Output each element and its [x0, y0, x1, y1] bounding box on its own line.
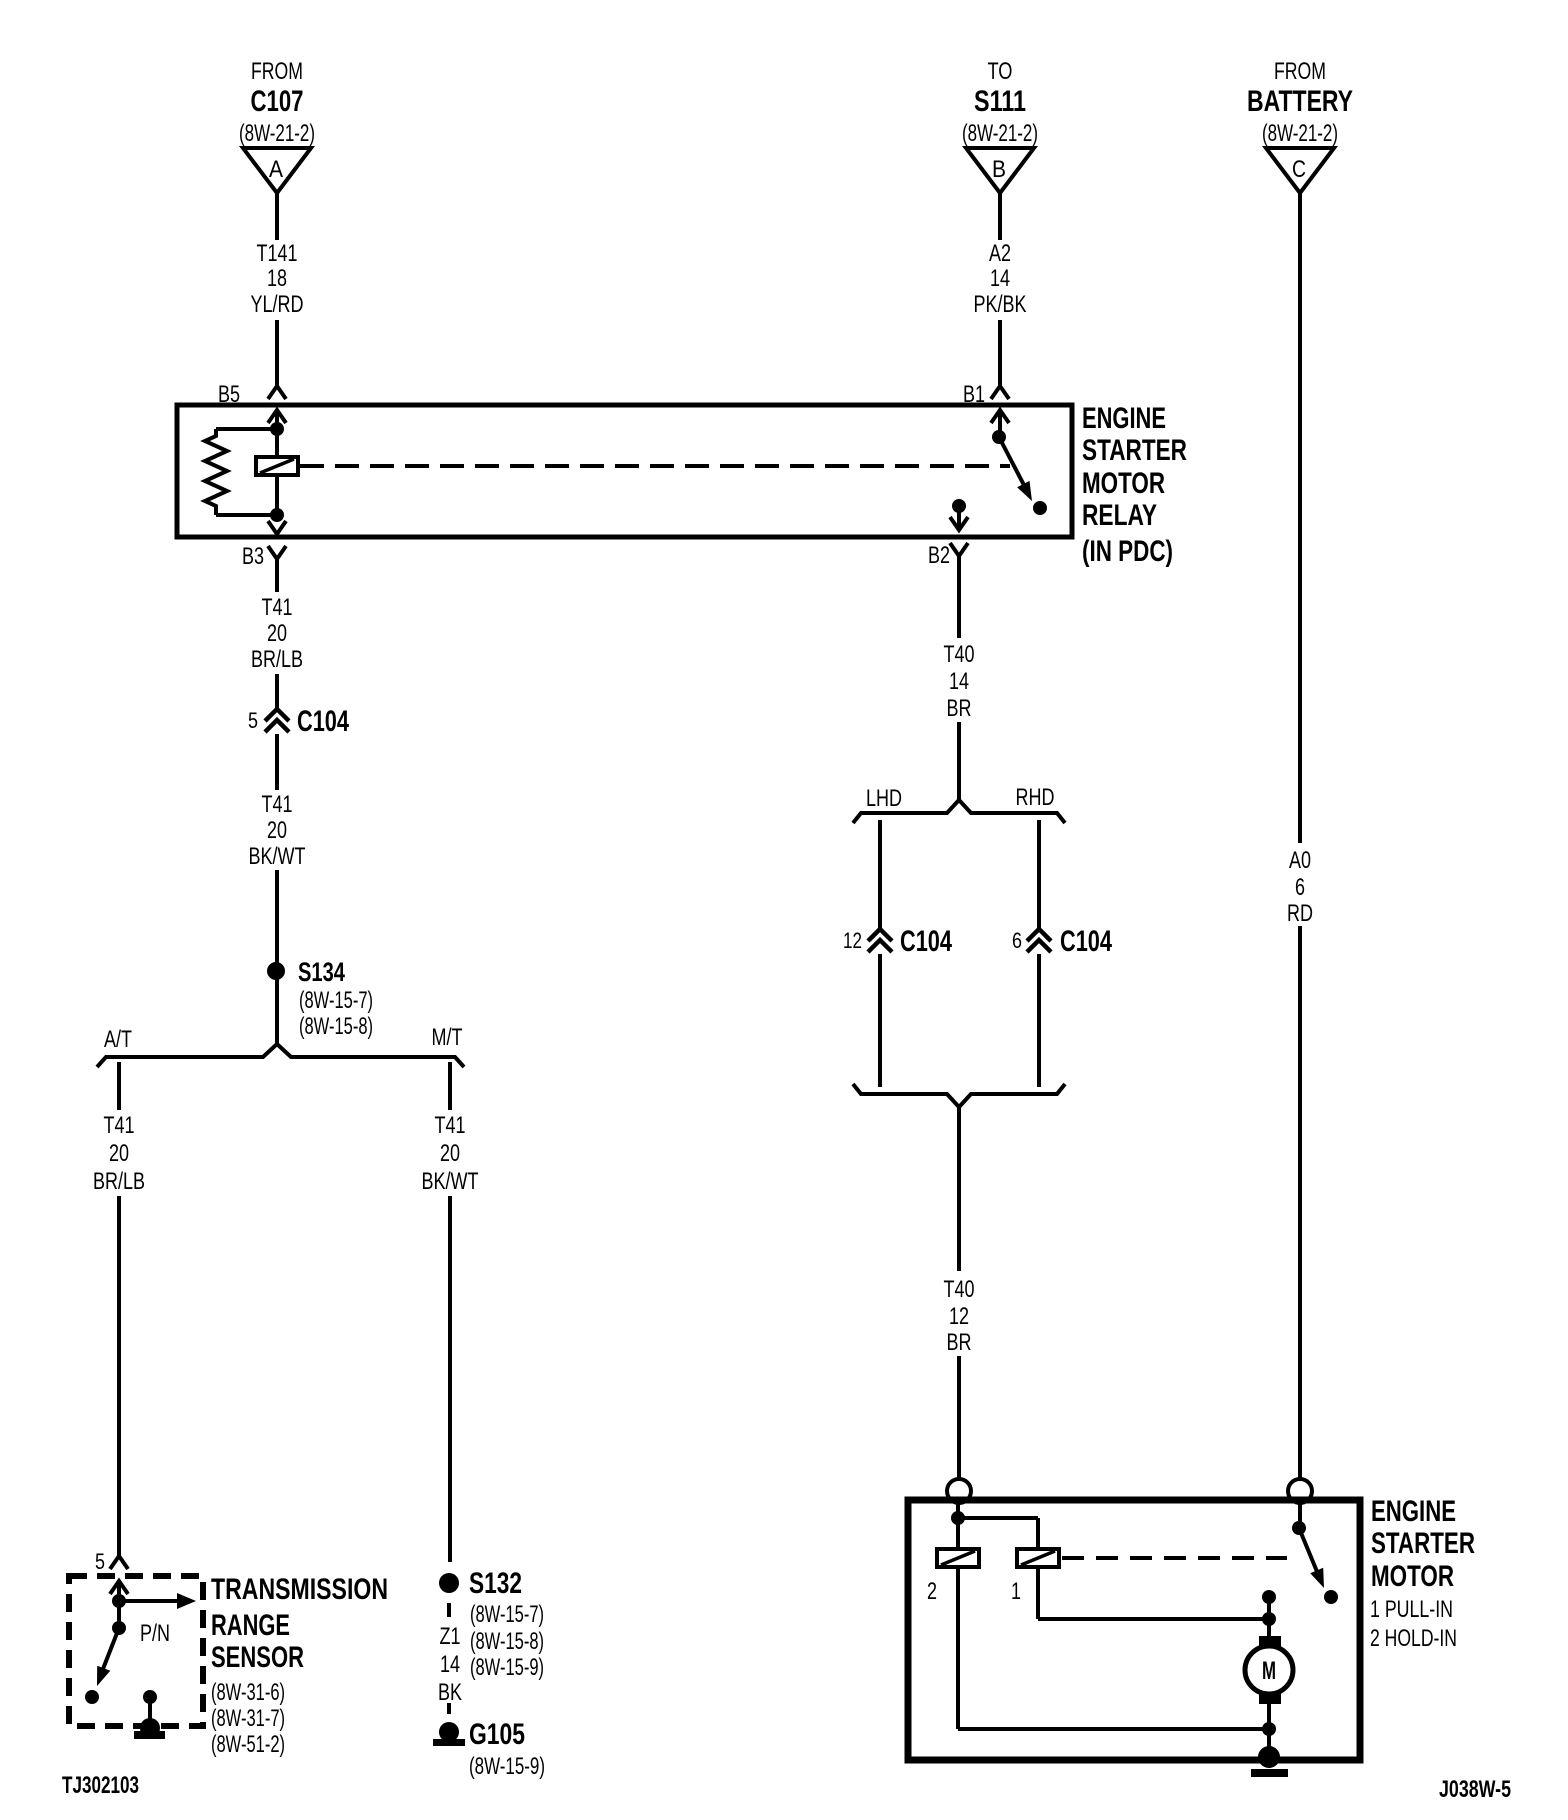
svg-text:6: 6	[1295, 874, 1305, 901]
svg-text:BR: BR	[947, 695, 972, 722]
svg-text:M: M	[1262, 1657, 1276, 1685]
svg-text:BR: BR	[947, 1329, 972, 1356]
svg-text:1 PULL-IN: 1 PULL-IN	[1370, 1596, 1453, 1623]
svg-text:ENGINE: ENGINE	[1371, 1495, 1456, 1528]
svg-text:C: C	[1292, 156, 1306, 183]
svg-text:C107: C107	[251, 85, 304, 118]
svg-text:ENGINE: ENGINE	[1082, 402, 1166, 435]
svg-text:S111: S111	[974, 85, 1026, 118]
svg-text:B: B	[992, 156, 1006, 183]
svg-text:J038W-5: J038W-5	[1439, 1776, 1511, 1803]
svg-text:A0: A0	[1289, 847, 1311, 874]
svg-text:BK/WT: BK/WT	[249, 843, 306, 870]
svg-text:14: 14	[440, 1651, 460, 1678]
svg-text:B2: B2	[928, 542, 950, 569]
svg-text:(8W-15-8): (8W-15-8)	[470, 1628, 544, 1655]
svg-text:M/T: M/T	[432, 1024, 463, 1051]
svg-text:(8W-31-6): (8W-31-6)	[211, 1679, 285, 1706]
svg-text:T40: T40	[944, 1276, 975, 1303]
svg-text:1: 1	[1011, 1578, 1021, 1605]
svg-text:T41: T41	[262, 594, 293, 621]
svg-text:(8W-21-2): (8W-21-2)	[1262, 120, 1338, 147]
svg-text:S132: S132	[469, 1567, 522, 1600]
svg-text:12: 12	[949, 1303, 969, 1330]
svg-text:(8W-21-2): (8W-21-2)	[239, 120, 315, 147]
svg-text:(8W-15-7): (8W-15-7)	[470, 1601, 544, 1628]
svg-text:S134: S134	[298, 957, 345, 987]
svg-text:A2: A2	[989, 240, 1011, 267]
svg-text:RHD: RHD	[1016, 784, 1055, 811]
svg-text:Z1: Z1	[440, 1623, 461, 1650]
svg-text:TRANSMISSION: TRANSMISSION	[211, 1573, 388, 1606]
svg-text:RANGE: RANGE	[211, 1609, 290, 1642]
svg-text:(8W-15-9): (8W-15-9)	[469, 1753, 545, 1780]
svg-text:T41: T41	[104, 1112, 135, 1139]
svg-text:B3: B3	[242, 543, 264, 570]
svg-text:(8W-15-9): (8W-15-9)	[470, 1654, 544, 1681]
svg-text:BR/LB: BR/LB	[251, 646, 303, 673]
svg-text:20: 20	[267, 620, 287, 647]
svg-text:(8W-51-2): (8W-51-2)	[211, 1731, 285, 1758]
svg-text:FROM: FROM	[1274, 58, 1326, 85]
svg-text:G105: G105	[469, 1718, 525, 1751]
svg-text:C104: C104	[297, 705, 349, 738]
svg-text:C104: C104	[900, 925, 952, 958]
svg-text:RELAY: RELAY	[1082, 499, 1157, 532]
svg-text:14: 14	[990, 265, 1010, 292]
svg-text:6: 6	[1012, 928, 1022, 953]
svg-text:STARTER: STARTER	[1371, 1527, 1475, 1560]
svg-text:(8W-21-2): (8W-21-2)	[962, 120, 1038, 147]
svg-text:14: 14	[949, 668, 969, 695]
svg-text:BK/WT: BK/WT	[422, 1168, 479, 1195]
svg-text:STARTER: STARTER	[1082, 434, 1187, 467]
svg-text:TJ302103: TJ302103	[62, 1772, 139, 1799]
svg-text:BATTERY: BATTERY	[1247, 85, 1353, 118]
svg-text:A: A	[269, 156, 283, 183]
svg-text:BR/LB: BR/LB	[93, 1168, 145, 1195]
svg-text:SENSOR: SENSOR	[211, 1641, 304, 1674]
svg-text:5: 5	[248, 708, 258, 733]
svg-text:2: 2	[927, 1578, 937, 1605]
svg-text:LHD: LHD	[866, 785, 902, 812]
svg-text:20: 20	[109, 1140, 129, 1167]
svg-text:(IN PDC): (IN PDC)	[1082, 535, 1173, 568]
svg-text:(8W-31-7): (8W-31-7)	[211, 1705, 285, 1732]
svg-text:(8W-15-7): (8W-15-7)	[299, 987, 373, 1014]
svg-text:20: 20	[267, 817, 287, 844]
svg-text:TO: TO	[988, 58, 1013, 85]
svg-text:MOTOR: MOTOR	[1082, 467, 1165, 500]
svg-text:T141: T141	[257, 240, 298, 267]
svg-text:PK/BK: PK/BK	[974, 291, 1027, 318]
svg-text:18: 18	[267, 265, 287, 292]
svg-text:20: 20	[440, 1140, 460, 1167]
svg-text:YL/RD: YL/RD	[251, 291, 304, 318]
svg-text:C104: C104	[1060, 925, 1112, 958]
svg-text:T41: T41	[435, 1112, 466, 1139]
svg-text:2 HOLD-IN: 2 HOLD-IN	[1370, 1625, 1457, 1652]
svg-text:P/N: P/N	[140, 1620, 170, 1647]
svg-text:BK: BK	[438, 1679, 462, 1706]
svg-text:RD: RD	[1287, 900, 1313, 927]
svg-text:5: 5	[95, 1549, 105, 1574]
svg-text:T40: T40	[944, 641, 975, 668]
svg-text:(8W-15-8): (8W-15-8)	[299, 1013, 373, 1040]
svg-text:T41: T41	[262, 791, 293, 818]
svg-text:12: 12	[843, 928, 862, 953]
svg-text:MOTOR: MOTOR	[1371, 1560, 1454, 1593]
svg-text:FROM: FROM	[251, 58, 303, 85]
svg-text:A/T: A/T	[104, 1026, 132, 1053]
